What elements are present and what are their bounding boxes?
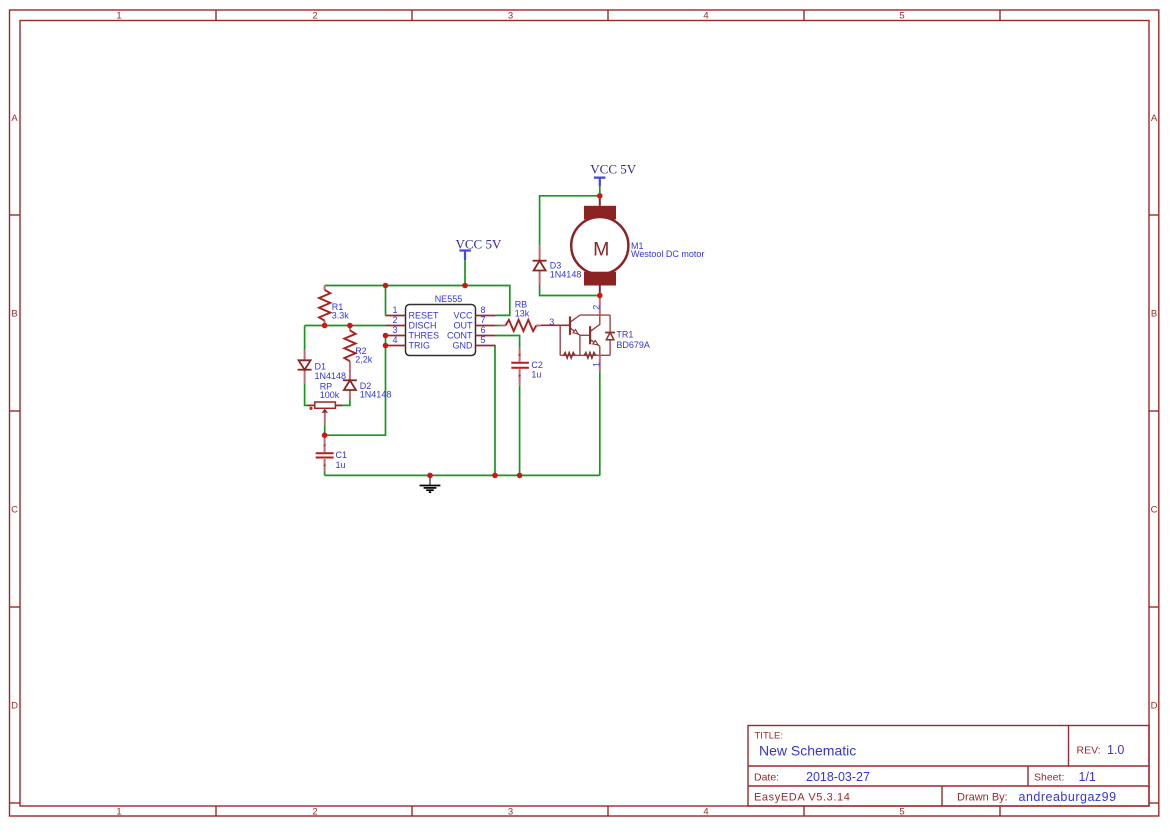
wire VCC flag drop (net VCC near U1)	[464, 260, 466, 286]
wire C1 bottom to ground rail	[324, 472, 326, 476]
svg-text:8: 8	[481, 305, 486, 315]
title block texts	[754, 731, 1124, 805]
svg-text:1u: 1u	[531, 370, 541, 380]
svg-text:THRES: THRES	[409, 331, 440, 341]
svg-text:1: 1	[592, 362, 602, 367]
wire DISCH pin2 horizontal	[305, 325, 386, 327]
svg-text:CONT: CONT	[447, 331, 473, 341]
wire D3 bottom to motor bottom node	[540, 285, 600, 296]
TR1 internals	[560, 315, 610, 355]
svg-text:4: 4	[703, 807, 708, 818]
TR1 T2 base bar	[589, 326, 591, 344]
svg-text:A: A	[11, 113, 18, 124]
wire ground rail	[325, 474, 600, 476]
TR1 base link from RB	[541, 324, 570, 326]
svg-text:1N4148: 1N4148	[315, 371, 347, 381]
svg-text:1: 1	[116, 807, 121, 818]
pin 7 OUT	[454, 315, 496, 331]
svg-text:4: 4	[703, 11, 708, 22]
svg-text:1: 1	[116, 11, 121, 22]
wire TR1 emitter to ground rail	[599, 372, 601, 476]
TR1 pin 2 collector lead	[599, 296, 601, 316]
frame row letters left	[11, 113, 18, 712]
junction pin1 riser on rail	[383, 283, 389, 289]
junction wiper / C1 top	[322, 432, 328, 438]
wire wiper stem green part	[324, 425, 326, 435]
TR1 internal resistor 2	[584, 353, 595, 359]
power flag VCC net (above M1)	[590, 162, 636, 187]
svg-text:BD679A: BD679A	[616, 340, 650, 350]
svg-text:TRIG: TRIG	[409, 341, 431, 351]
frame column numbers bottom	[116, 807, 904, 818]
svg-text:2: 2	[312, 807, 317, 818]
svg-text:2: 2	[592, 305, 602, 310]
pin 3 THRES	[386, 325, 440, 341]
svg-text:New Schematic: New Schematic	[759, 743, 856, 759]
svg-text:5: 5	[899, 807, 904, 818]
junction TRIG pin4	[383, 343, 389, 349]
svg-text:1/1: 1/1	[1079, 770, 1096, 784]
svg-text:5: 5	[481, 335, 486, 345]
wire THRES-TRIG tie down to wiper node	[325, 336, 386, 436]
svg-text:B: B	[11, 309, 17, 320]
svg-text:1u: 1u	[336, 460, 346, 470]
svg-text:5: 5	[899, 11, 904, 22]
TR1 internal resistor 1	[564, 353, 575, 359]
svg-text:7: 7	[481, 315, 486, 325]
svg-text:Drawn By:: Drawn By:	[957, 792, 1008, 804]
junction motor top	[597, 193, 603, 199]
svg-text:2018-03-27: 2018-03-27	[806, 770, 870, 784]
pin 6 CONT	[447, 325, 496, 341]
svg-text:NE555: NE555	[435, 294, 463, 304]
svg-text:Date:: Date:	[754, 772, 779, 784]
svg-text:100k: 100k	[320, 390, 340, 400]
TR1 pin 1 emitter lead	[599, 355, 601, 371]
junction C2 on rail	[517, 473, 523, 479]
svg-text:A: A	[1151, 113, 1158, 124]
junction VCC drop	[462, 283, 468, 289]
svg-text:B: B	[1151, 309, 1157, 320]
svg-text:D: D	[1151, 701, 1158, 712]
svg-text:C: C	[1151, 505, 1158, 516]
svg-text:6: 6	[481, 325, 486, 335]
junction R1 bottom	[322, 323, 328, 329]
power flag VCC net (above U1)	[456, 237, 502, 261]
wire D1 branch lower to RP	[305, 384, 311, 406]
wire D1 branch upper	[304, 326, 306, 350]
pin 8 VCC	[453, 305, 495, 321]
frame column numbers top	[116, 11, 904, 22]
wire VCC top rail to pin8	[325, 286, 510, 316]
junction THRES pin3	[383, 333, 389, 339]
pin 4 TRIG	[386, 335, 431, 351]
svg-text:C1: C1	[336, 450, 348, 460]
wire RP right to D2 bottom	[342, 399, 350, 405]
svg-text:3: 3	[392, 325, 397, 335]
svg-text:3.3k: 3.3k	[332, 311, 350, 321]
svg-text:VCC 5V: VCC 5V	[456, 237, 502, 252]
svg-text:DISCH: DISCH	[409, 321, 437, 331]
svg-text:TR1: TR1	[616, 330, 633, 340]
svg-text:M: M	[593, 239, 609, 261]
svg-text:3: 3	[508, 807, 513, 818]
svg-text:1N4148: 1N4148	[360, 390, 392, 400]
pin 2 DISCH	[386, 315, 437, 331]
svg-text:OUT: OUT	[454, 321, 474, 331]
wire RESET pin1 to VCC rail	[385, 286, 387, 316]
pin 5 GND	[453, 335, 496, 351]
svg-text:RESET: RESET	[409, 311, 440, 321]
wire VCC flag drop (net VCC near M1)	[599, 186, 601, 196]
wire C2 bottom to ground rail	[519, 386, 521, 476]
junction ground	[427, 473, 433, 479]
svg-text:andreaburgaz99: andreaburgaz99	[1019, 790, 1117, 804]
svg-text:2,2k: 2,2k	[355, 355, 373, 365]
svg-text:VCC 5V: VCC 5V	[590, 162, 636, 177]
frame row letters right	[1151, 113, 1158, 712]
svg-text:2: 2	[392, 315, 397, 325]
svg-text:1: 1	[392, 305, 397, 315]
svg-text:REV:: REV:	[1077, 745, 1101, 757]
svg-text:Westool DC motor: Westool DC motor	[631, 249, 704, 259]
svg-text:D: D	[11, 701, 18, 712]
TR1 internal diode	[605, 332, 615, 334]
svg-text:3: 3	[508, 11, 513, 22]
wire GND pin5 drop	[494, 346, 496, 476]
title block	[748, 726, 1149, 807]
svg-text:C2: C2	[531, 360, 543, 370]
svg-text:EasyEDA V5.3.14: EasyEDA V5.3.14	[754, 792, 850, 804]
svg-text:GND: GND	[453, 341, 474, 351]
junction pin5 on rail	[492, 473, 498, 479]
svg-text:TITLE:: TITLE:	[755, 731, 784, 742]
wire OUT pin7 to RB	[496, 325, 501, 327]
svg-text:Sheet:: Sheet:	[1034, 772, 1064, 784]
svg-text:C: C	[11, 505, 18, 516]
junction motor bottom	[597, 293, 603, 299]
wire motor VCC rail to D3 top	[540, 196, 600, 246]
svg-text:VCC: VCC	[453, 311, 473, 321]
svg-text:4: 4	[392, 335, 397, 345]
wire CONT pin6 to C2	[496, 336, 520, 349]
junction R2 top	[347, 323, 353, 329]
TR1 emitter arrows	[573, 330, 578, 334]
svg-text:2: 2	[312, 11, 317, 22]
svg-text:1.0: 1.0	[1107, 743, 1124, 757]
svg-text:1N4148: 1N4148	[550, 270, 582, 280]
svg-text:13k: 13k	[515, 309, 530, 319]
pin 1 RESET	[386, 305, 440, 321]
TR1 T1 base bar	[569, 316, 571, 335]
